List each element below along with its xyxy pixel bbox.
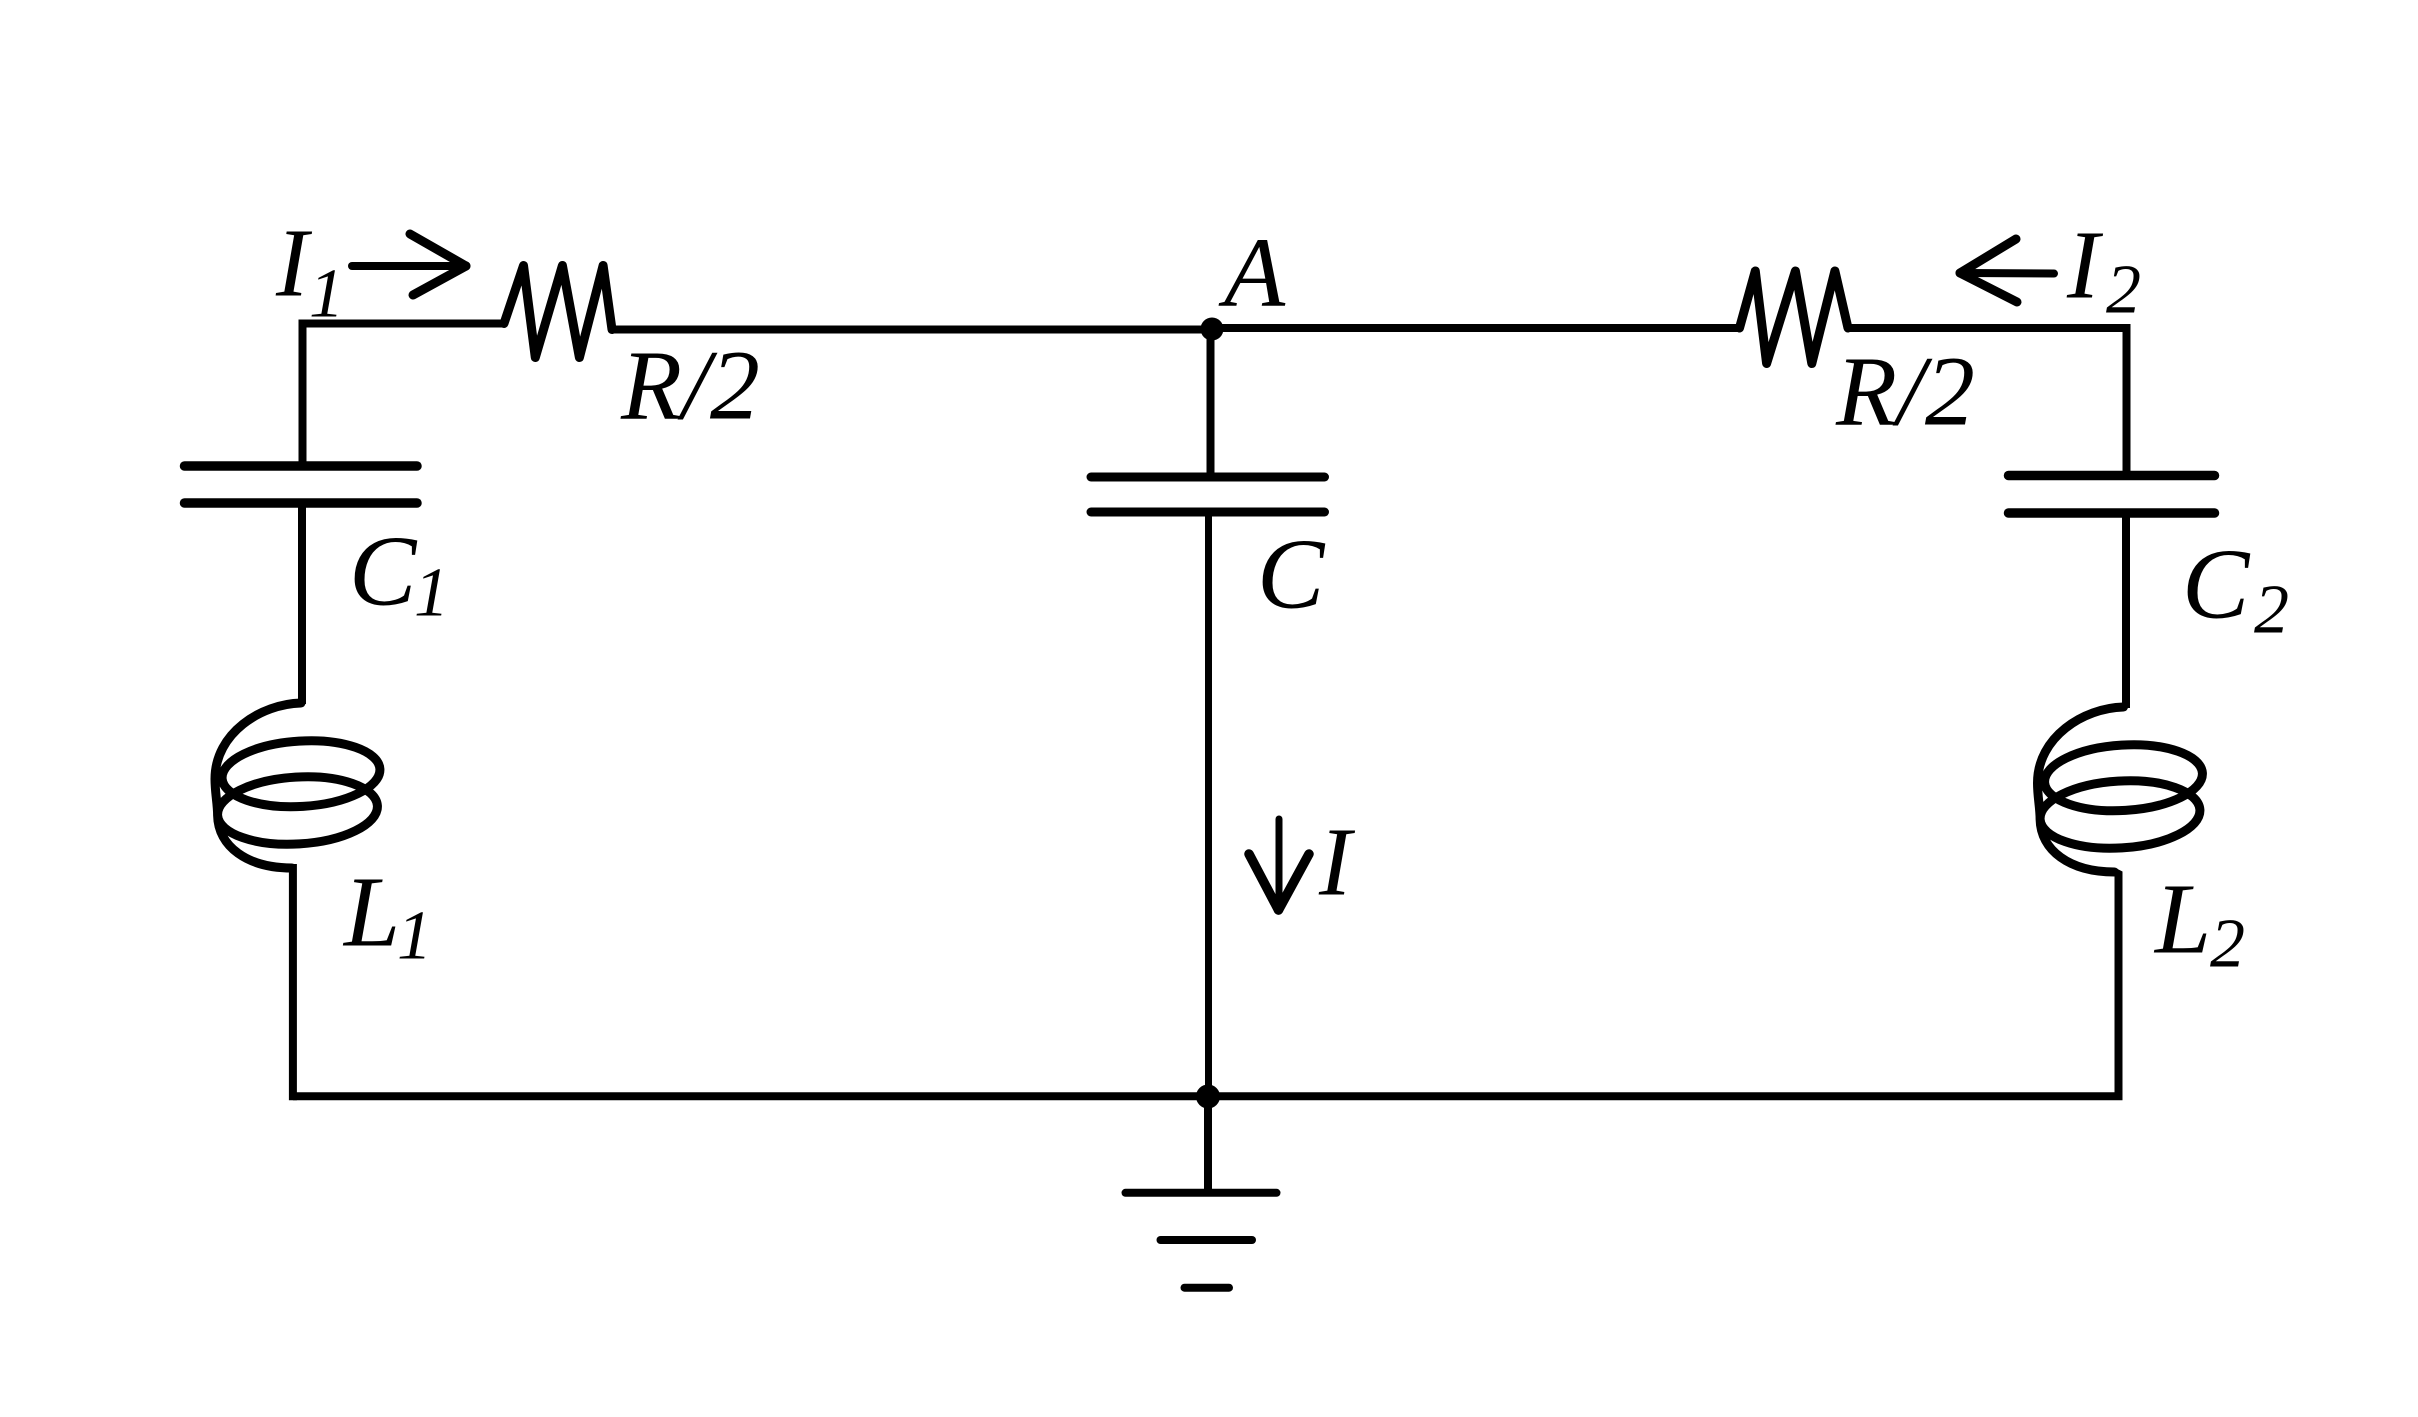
wire top-left corner: down lead and horizontal to resistor: [303, 324, 505, 466]
wire from right resistor to top-right corner and down to C2: [1848, 328, 2127, 476]
svg-text:2: 2: [2210, 906, 2245, 983]
inductor L2 coil: [2038, 707, 2203, 872]
wire node A down to capacitor C: [1207, 329, 1215, 477]
wire bottom-left vertical up to inductor L1: [288, 868, 297, 1100]
svg-text:C: C: [2182, 528, 2251, 640]
capacitor C plates: [1091, 477, 1325, 512]
svg-text:R/2: R/2: [620, 330, 760, 441]
capacitor C2 plates: [2009, 476, 2215, 514]
bottom wire: [293, 1092, 2123, 1100]
capacitor C1 plates: [185, 466, 418, 503]
svg-text:I: I: [1318, 809, 1356, 916]
node A junction dot: [1201, 318, 1224, 341]
svg-text:L: L: [2153, 863, 2211, 975]
svg-text:C: C: [349, 515, 418, 627]
wire from C2 down to inductor L2: [2122, 513, 2130, 708]
svg-text:C: C: [1257, 518, 1326, 630]
arrow for current I (pointing down): [1249, 819, 1309, 910]
wire from left resistor to node A: [612, 326, 1212, 334]
ground stem: [1204, 1096, 1212, 1192]
wire from node A to right resistor: [1212, 324, 1740, 332]
arrow for current I2 (pointing left): [1960, 239, 2054, 302]
svg-text:1: 1: [414, 555, 449, 632]
wire from C1 down to inductor L1: [298, 503, 306, 704]
resistor R/2 (right) zigzag: [1740, 271, 1849, 364]
bottom node junction dot: [1196, 1085, 1220, 1109]
svg-text:I: I: [275, 210, 313, 317]
resistor R/2 (left) zigzag: [504, 266, 612, 358]
inductor L1 coil: [215, 703, 380, 868]
svg-text:1: 1: [397, 898, 432, 975]
svg-text:L: L: [342, 856, 400, 968]
svg-text:R/2: R/2: [1835, 336, 1975, 447]
svg-text:1: 1: [309, 256, 344, 333]
ground bar 2: [1161, 1236, 1253, 1244]
svg-text:I: I: [2066, 212, 2104, 319]
svg-text:2: 2: [2254, 572, 2289, 649]
ground bar 3: [1185, 1284, 1230, 1292]
ground bar 1: [1126, 1189, 1277, 1197]
arrow for current I1 (pointing right): [352, 234, 466, 295]
svg-text:2: 2: [2106, 252, 2141, 329]
svg-text:A: A: [1218, 217, 1286, 328]
wire from capacitor C down to bottom node: [1205, 512, 1212, 1096]
wire from L2 down to bottom-right corner: [2115, 872, 2119, 1096]
